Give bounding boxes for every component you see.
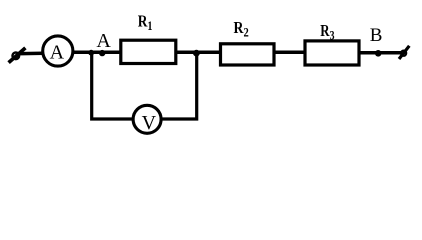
svg-text:A: A <box>96 30 111 52</box>
svg-text:V: V <box>142 112 157 134</box>
svg-text:A: A <box>50 41 65 63</box>
svg-text:B: B <box>370 25 383 46</box>
